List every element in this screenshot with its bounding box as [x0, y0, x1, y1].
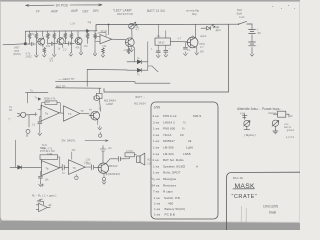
capacitor C7 — [38, 122, 42, 124]
svg-text:2N. 5457k: 2N. 5457k — [62, 138, 76, 142]
svg-text:Alternäte Аυtω… Pωwer bυys…: Alternäte Аυtω… Pωwer bυys… — [237, 107, 283, 111]
svg-text:Misc/glue: Misc/glue — [163, 177, 177, 181]
wire row2 input vertical — [14, 140, 16, 167]
svg-text:19½/12/05: 19½/12/05 — [263, 204, 278, 208]
wire R2 to ground — [35, 31, 37, 55]
svg-text:+5v: +5v — [108, 146, 113, 150]
wire A4 out — [85, 166, 91, 168]
capacitor C11 top — [100, 146, 106, 163]
svg-text:DET: DET — [83, 9, 89, 13]
svg-text:1N914 2: 1N914 2 — [163, 120, 175, 124]
svg-text:2 ea: 2 ea — [153, 120, 159, 124]
label q2 values — [46, 45, 87, 51]
capacitor C12 out — [118, 156, 125, 161]
svg-text:(MOSFET): (MOSFET) — [108, 172, 121, 176]
svg-text:DETECTOR: DETECTOR — [117, 12, 133, 16]
svg-text:PN5 A-12: PN5 A-12 — [163, 114, 177, 118]
wire Q6 gnd circle — [99, 132, 101, 134]
label d1 d2 — [137, 57, 140, 76]
parts list box — [151, 102, 218, 219]
capacitor C6 — [183, 47, 187, 49]
ground G10 — [164, 53, 168, 57]
svg-text:8Ω: 8Ω — [147, 159, 150, 162]
wire to speaker — [125, 155, 136, 159]
wire R3 down — [47, 31, 49, 44]
MASK underline — [233, 188, 255, 190]
node TP BATT circle — [94, 95, 99, 100]
diode D3 — [18, 166, 22, 170]
svg-text:-: - — [257, 43, 258, 47]
switch SW1 — [239, 21, 253, 24]
label 500k pot row2 — [40, 146, 52, 156]
svg-text:batt·on: batt·on — [284, 126, 292, 129]
capacitor C4 — [156, 51, 160, 53]
svg-text:Tσ: Tσ — [62, 172, 66, 175]
wire J2 to amp — [29, 114, 35, 127]
bottom-left corner wedge — [0, 217, 3, 222]
svg-text:4.7: 4.7 — [136, 29, 140, 32]
wire bus W1 — [87, 69, 127, 86]
wire diode line2 — [127, 69, 148, 71]
svg-text:Ta: Ta — [45, 112, 48, 116]
resistor R3 — [46, 33, 49, 39]
svg-text:Switch, P.B.: Switch, P.B. — [164, 196, 181, 200]
label lm47 under chain — [49, 57, 53, 63]
svg-text:½: ½ — [182, 127, 185, 131]
label u2 pin values — [151, 48, 171, 51]
node TP circle q6 — [99, 134, 102, 137]
pickup sketch 2 transistor — [272, 120, 279, 134]
wire diode line1 — [127, 61, 148, 63]
paper specks — [272, 5, 295, 9]
svg-text:R caps: R caps — [163, 190, 173, 194]
LED LED2 — [201, 25, 215, 31]
title block outline — [227, 172, 300, 230]
op-amp A1 — [41, 105, 60, 121]
ground G4 — [69, 52, 73, 56]
left paper edge shadow — [0, 2, 1, 222]
dimension arrow "GR PCB" — [26, 4, 103, 7]
svg-text:DRI: DRI — [93, 9, 99, 13]
wire TP feed row1 — [26, 91, 49, 93]
wire VCC rail B — [96, 24, 239, 31]
ground G8 — [130, 48, 134, 52]
label 24v left — [216, 27, 219, 33]
svg-text:MQ 5W54: MQ 5W54 — [104, 99, 116, 103]
svg-text:1 ea: 1 ea — [153, 127, 159, 131]
label 1.5k 10M gate — [86, 158, 91, 165]
svg-text:7 ea: 7 ea — [153, 190, 159, 194]
transistor Q7 power MOSFET — [187, 37, 198, 48]
label LED2 values — [215, 26, 221, 32]
wire R7 gnd — [70, 31, 72, 53]
op-amp U1 — [100, 35, 112, 44]
svg-text:1.5k: 1.5k — [86, 158, 91, 161]
ground G1 — [35, 53, 39, 57]
svg-text:2.2: 2.2 — [86, 34, 90, 37]
wire A1 minus cap — [38, 110, 41, 122]
svg-text:R₁ - R₂ ( 1 + gain ): R₁ - R₂ ( 1 + gain ) — [32, 193, 56, 197]
svg-text:1N58: 1N58 — [183, 152, 191, 156]
svg-text:1 ea: 1 ea — [153, 164, 159, 168]
capacitor C2 coupling — [48, 42, 57, 46]
wire TP batt row — [93, 96, 95, 100]
capacitor C3 coupling — [64, 42, 74, 46]
svg-text:(*·: (*· — [9, 118, 12, 121]
svg-text:Battery 9V(2V): Battery 9V(2V) — [165, 207, 186, 211]
svg-text:9V: 9V — [258, 31, 262, 35]
wire U1 feedback — [98, 33, 106, 37]
wire q8 source — [104, 173, 106, 178]
svg-text:2N3C: 2N3C — [26, 56, 33, 59]
top scanner border band — [0, 0, 300, 2]
transistor Q6 lamp driver — [89, 111, 99, 120]
transistor Q1 — [37, 38, 44, 45]
label +9V — [257, 28, 262, 35]
bottom scanner border band — [0, 221, 300, 230]
wire A1 out — [60, 112, 64, 114]
label DET q6 — [89, 108, 101, 112]
resistor R12 box out — [125, 153, 134, 157]
node sw dot — [238, 24, 239, 25]
svg-text:4-7: 4-7 — [200, 46, 204, 49]
diode D0 on rail — [85, 29, 90, 32]
resistor RF2 feedback box — [40, 155, 58, 160]
wire bus W3 — [56, 87, 102, 89]
wire R6 — [64, 31, 66, 44]
label NPN 4-7 — [200, 43, 205, 53]
capacitor C8 — [38, 176, 42, 178]
wire battery drop — [251, 24, 253, 53]
resistor RF1 feedback box — [45, 101, 57, 105]
wire Q7 gate cap — [184, 42, 186, 47]
svg-text:1 ea: 1 ea — [153, 171, 159, 175]
capacitor C10 — [92, 165, 98, 170]
ground G16 — [39, 182, 43, 186]
label switch small — [240, 112, 280, 115]
svg-text:Rufis, DPDT: Rufis, DPDT — [163, 171, 181, 175]
svg-text:3417: 3417 — [158, 41, 165, 45]
jack J3 below — [26, 129, 30, 136]
label mic left — [9, 106, 13, 121]
svg-text:74c14: 74c14 — [163, 133, 172, 137]
label S — [192, 36, 195, 39]
wire row1 feed vertical — [27, 93, 29, 104]
ground G7 — [101, 53, 105, 57]
wire R5 gnd — [53, 31, 55, 53]
svg-text:1 ea: 1 ea — [154, 201, 160, 205]
ground G5 — [79, 51, 83, 55]
battery B1 — [249, 30, 256, 34]
wire feedback row2 — [42, 157, 60, 167]
svg-text:1 ea: 1 ea — [153, 133, 159, 137]
node TP circle a4 — [75, 176, 78, 179]
wire lamp branch — [99, 89, 100, 112]
svg-text:PC B.B: PC B.B — [165, 212, 175, 216]
FET Q8 MPF102 — [98, 163, 109, 173]
svg-text:→ gröund: → gröund — [284, 129, 295, 132]
enclosure box outline — [104, 24, 229, 92]
svg-text:Swif: Swif — [237, 11, 243, 15]
parts list rows — [152, 114, 202, 216]
svg-text:Tb: Tb — [73, 166, 77, 170]
resistor R4 emitter — [43, 48, 46, 54]
wire U1 inputs — [96, 37, 101, 42]
svg-text:5W: 5W — [200, 50, 204, 53]
wire q8 drain out — [106, 159, 118, 164]
svg-text:BATT →: BATT → — [136, 95, 146, 99]
wire diode join vertical — [148, 42, 158, 72]
wire VCC rail A — [25, 30, 97, 32]
svg-text:30 pF: 30 pF — [101, 29, 108, 33]
svg-text:BATT 12 3/4: BATT 12 3/4 — [147, 9, 165, 13]
ground G2 — [42, 53, 46, 57]
svg-text:⊕2µF: ⊕2µF — [200, 35, 207, 38]
wire row2 input — [10, 166, 41, 168]
svg-text:1/99: 1/99 — [154, 106, 161, 110]
pickup sketch 2 resistor box — [273, 111, 289, 117]
resistor R11 — [127, 48, 130, 54]
IC U2 74C14 box — [155, 38, 171, 45]
svg-text:Speaker, 8/16Ω: Speaker, 8/16Ω — [163, 164, 185, 168]
svg-text:MPF102: MPF102 — [108, 164, 118, 168]
paper crease marks bottom right — [241, 206, 246, 223]
tiny mark above formula — [41, 184, 44, 187]
svg-text:KмB: KмB — [269, 211, 277, 215]
label MQ 5W54 LAMP — [104, 99, 116, 106]
resistor R5 — [53, 33, 56, 39]
svg-text:1 ea: 1 ea — [154, 196, 160, 200]
svg-text:24 ea: 24 ea — [152, 183, 160, 187]
svg-text:(2N3C): (2N3C) — [13, 53, 21, 56]
wire feedback row1 — [42, 103, 61, 113]
svg-text:FF: FF — [36, 9, 40, 13]
ground G13 — [250, 52, 254, 56]
pickup sketch 1 — [243, 114, 250, 130]
node J2 plus — [34, 113, 37, 116]
label LED values — [134, 26, 140, 32]
wire Q3 legs — [78, 31, 81, 52]
label LM358 P1A — [44, 97, 56, 104]
svg-text:Tb: Tb — [68, 112, 72, 116]
ground G12 — [184, 52, 188, 56]
svg-text:Ta: Ta — [46, 167, 49, 171]
svg-text:10M: 10M — [47, 152, 52, 156]
ground G11 — [195, 51, 199, 55]
LED LED1 — [129, 22, 138, 29]
svg-text:4 ea: 4 ea — [153, 114, 159, 118]
svg-text:½: ½ — [183, 120, 186, 124]
resistor RL box lamp — [96, 93, 102, 98]
svg-text:ωire,: ωire, — [284, 123, 289, 126]
svg-text:PN5 600: PN5 600 — [163, 127, 175, 131]
transistor Q2 — [57, 38, 64, 45]
svg-text:4.7: 4.7 — [178, 37, 182, 41]
svg-text:1M: 1M — [46, 100, 50, 104]
wire U2 output — [171, 41, 187, 43]
svg-text:Resistors: Resistors — [163, 183, 177, 187]
capacitor C1 — [28, 42, 36, 46]
svg-text:500-S: 500-S — [193, 114, 201, 118]
wire U2 top pin — [159, 24, 166, 38]
svg-text:2£: 2£ — [188, 139, 192, 143]
svg-text:1 ea: 1 ea — [153, 139, 159, 143]
svg-text:·· 450: ·· 450 — [165, 201, 174, 205]
svg-text:TP: TP — [81, 110, 85, 113]
svg-text:1µ56: 1µ56 — [186, 146, 193, 150]
node rail junction — [108, 24, 110, 26]
transistor Q5 detector — [125, 38, 134, 47]
speaker SP1 — [137, 153, 145, 165]
wire Q7 source down — [196, 47, 198, 51]
battery B2 — [249, 42, 256, 46]
diode D4 input A1 — [38, 97, 41, 100]
svg-text:2.2: 2.2 — [63, 48, 67, 51]
wire R1 down — [25, 31, 29, 44]
diode D1 — [137, 60, 141, 64]
ground G9 — [156, 54, 160, 58]
svg-text:2 ea: 2 ea — [153, 158, 159, 162]
svg-text:½₂ ea: ½₂ ea — [152, 177, 160, 181]
node input junction — [24, 42, 27, 45]
svg-text:4.7: 4.7 — [64, 33, 68, 36]
svg-text:BAT hol. Rubis: BAT hol. Rubis — [163, 158, 184, 162]
svg-text:“CRATE”: “CRATE” — [232, 194, 258, 200]
svg-text:Lock: Lock — [239, 15, 245, 19]
resistor R1 — [28, 33, 31, 39]
svg-text:2µ∫: 2µ∫ — [88, 20, 92, 24]
svg-text:AMP: AMP — [71, 9, 78, 13]
svg-text:~~~HEAT TP: ~~~HEAT TP — [58, 77, 75, 81]
label 8ohm — [147, 159, 153, 166]
diode D2 — [137, 68, 141, 72]
wire a4 top stub — [71, 152, 73, 159]
resistor R8 — [86, 33, 89, 39]
resistor R10 under U1 — [102, 48, 105, 54]
capacitor C5 — [164, 50, 168, 52]
wire Q5 collector up — [131, 29, 133, 39]
wire Q7 drain up — [195, 24, 197, 37]
wire Q6 emitter gnd — [97, 120, 99, 125]
transistor Q3 — [75, 38, 82, 45]
wire bus W2 — [56, 81, 171, 83]
svg-text:Bönn·fäl.: Bönn·fäl. — [233, 176, 244, 180]
wire U1 out — [112, 38, 126, 40]
op-amp A4 — [69, 160, 86, 175]
svg-text:flop: flop — [192, 12, 197, 16]
svg-text:10M: 10M — [86, 162, 91, 165]
wire a4 tp stub — [75, 175, 77, 177]
resistor R9 — [94, 33, 97, 39]
wire R8 — [87, 31, 89, 44]
label 5mv block — [42, 144, 55, 153]
svg-text:( läyöut ): ( läyöut ) — [244, 133, 256, 137]
ground G6 — [93, 52, 97, 56]
ground G14 — [38, 131, 42, 135]
wire R9 gnd — [94, 31, 96, 53]
capacitor C9 coupling — [60, 164, 69, 170]
svg-text:AMP: AMP — [51, 10, 58, 14]
wire Q1 collector — [42, 31, 45, 47]
wire c8 gnd — [39, 178, 41, 183]
right paper edge shadow — [299, 2, 300, 223]
wire 2n5457 arrow — [85, 140, 108, 142]
resistor R2 — [35, 33, 38, 39]
svg-text:LM-356: LM-356 — [163, 146, 174, 150]
svg-text:1 ea: 1 ea — [154, 207, 160, 211]
svg-text:MIC TP: MIC TP — [56, 84, 66, 88]
wire A3 minus — [40, 172, 41, 176]
jack J2 input — [18, 112, 30, 117]
svg-text:0.47Ω: 0.47Ω — [126, 150, 133, 153]
ground G17 — [102, 180, 106, 184]
wire A2 out — [80, 113, 89, 115]
wire U2 bottom pins — [158, 45, 166, 51]
ground G15 — [98, 126, 102, 130]
resistor R7 — [70, 33, 73, 39]
label top values — [31, 33, 91, 37]
op-amp A2 — [64, 106, 80, 121]
op-amp A3 — [42, 161, 60, 176]
svg-text:1,2,3-4: 1,2,3-4 — [286, 135, 295, 139]
label wires batteries ground — [284, 123, 295, 132]
wire rail to U1 — [107, 25, 109, 35]
ground G3 — [52, 53, 56, 57]
svg-text:1 ea: 1 ea — [154, 212, 160, 216]
svg-text:LM-324: LM-324 — [163, 152, 174, 156]
label 2N3 block2 — [26, 53, 33, 59]
svg-text:1 ea: 1 ea — [153, 152, 159, 156]
svg-text:1M: 1M — [84, 45, 87, 48]
resistor R6 — [64, 33, 67, 39]
svg-text:±5v: ±5v — [72, 148, 77, 152]
wire Q5 emitter — [129, 46, 135, 62]
wire c7 gnd — [39, 124, 41, 132]
op-amp doodle sketch — [36, 199, 50, 212]
svg-text:L.M: L.M — [71, 22, 75, 26]
svg-text:MN5917: MN5917 — [163, 139, 175, 143]
svg-text:1R PCB: 1R PCB — [56, 4, 69, 8]
svg-text:MQ 5W54: MQ 5W54 — [134, 102, 146, 106]
wire Q2 collector — [59, 31, 63, 48]
svg-text:FR: FR — [9, 109, 13, 112]
paper shadow above bottom band — [0, 220, 300, 223]
wire input mic lead — [3, 44, 25, 45]
svg-text:1 ea: 1 ea — [153, 146, 159, 150]
svg-text:LAMP: LAMP — [106, 102, 113, 106]
svg-text:2.2: 2.2 — [124, 49, 128, 52]
node gnd circle q8 — [102, 178, 105, 181]
svg-text:741: 741 — [102, 44, 107, 48]
svg-text:0.1: 0.1 — [32, 124, 36, 127]
label 5457 block — [13, 47, 21, 57]
wire input drop — [24, 31, 26, 44]
